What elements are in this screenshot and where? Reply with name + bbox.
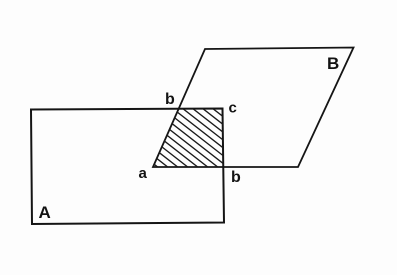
svg-text:a: a bbox=[139, 165, 148, 182]
svg-text:c: c bbox=[229, 100, 237, 117]
svg-text:A: A bbox=[39, 203, 51, 222]
svg-text:b: b bbox=[231, 169, 241, 186]
rectangle A outline bbox=[31, 109, 224, 225]
svg-text:b: b bbox=[165, 91, 175, 108]
hatched overlap region (shading lines) bbox=[140, 44, 240, 239]
parallelogram B outline bbox=[153, 48, 354, 168]
svg-text:B: B bbox=[327, 54, 339, 73]
